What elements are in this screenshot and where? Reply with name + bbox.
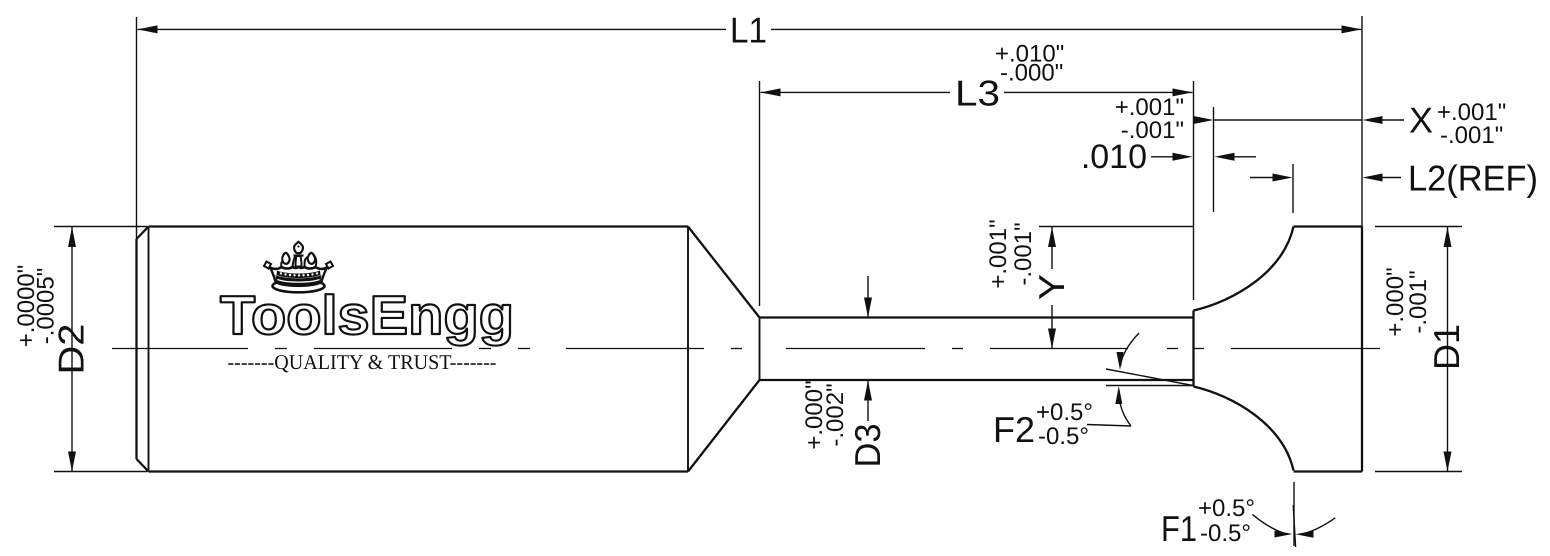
svg-text:-0.5°: -0.5° bbox=[1200, 520, 1251, 547]
svg-text:-.001": -.001" bbox=[1405, 270, 1432, 333]
dimension L2(REF) label bbox=[1408, 158, 1538, 199]
dimension .010 leader with arrow at A bbox=[1151, 153, 1193, 161]
dimension Y lower arrow (tip at centerline) bbox=[1048, 305, 1056, 349]
D1 tolerance upper +.000&quot; (rotated) bbox=[1382, 267, 1409, 336]
L3 left extension line bbox=[759, 81, 761, 306]
head bottom edge bbox=[1294, 470, 1363, 472]
dimension D3 label (rotated) bbox=[847, 424, 888, 468]
shank bottom edge bbox=[149, 470, 689, 472]
X left tolerance upper +.001&quot; bbox=[1115, 94, 1184, 121]
svg-text:+0.5°: +0.5° bbox=[1036, 399, 1093, 426]
dimension D3 upper arrow (tip at neck top) bbox=[864, 276, 872, 318]
head bottom fillet (concave) bbox=[1194, 387, 1294, 471]
Y tolerance upper +.001&quot; (rotated) bbox=[985, 219, 1012, 288]
svg-text:-------QUALITY & TRUST-------: -------QUALITY & TRUST------- bbox=[228, 350, 497, 374]
D1 bottom extension line bbox=[1375, 471, 1462, 473]
svg-text:+0.5°: +0.5° bbox=[1198, 495, 1255, 522]
dimension .010 label bbox=[1081, 138, 1147, 176]
dimension .010 right arrow at B with tail bbox=[1215, 153, 1257, 161]
svg-text:F1: F1 bbox=[1161, 508, 1197, 549]
F1 arc right segment with arrow bbox=[1296, 518, 1336, 538]
dimension L3 label bbox=[955, 73, 1000, 114]
F1 tolerance upper +0.5° bbox=[1198, 495, 1255, 522]
svg-text:-0.5°: -0.5° bbox=[1038, 423, 1089, 450]
L3 tolerance lower -.000&quot; bbox=[1000, 60, 1063, 87]
taper bottom edge bbox=[688, 380, 760, 472]
F1 arc left segment with arrow bbox=[1252, 514, 1292, 537]
neck top edge bbox=[760, 316, 1194, 318]
svg-text:-.001": -.001" bbox=[1440, 122, 1503, 149]
dimension F1 label bbox=[1161, 508, 1197, 549]
F1 tolerance lower -0.5° bbox=[1200, 520, 1251, 547]
L3 right extension line (node A) bbox=[1193, 81, 1195, 300]
dimension D2 label (rotated) bbox=[51, 324, 92, 375]
F2 tolerance upper +0.5° bbox=[1036, 399, 1093, 426]
X tolerance lower -.001&quot; bbox=[1440, 122, 1503, 149]
X left tolerance lower -.001&quot; bbox=[1121, 117, 1184, 144]
dimension D3 lower arrow (tip at neck bottom) bbox=[864, 381, 872, 422]
D2 tolerance lower -.0005&quot; (rotated) bbox=[33, 268, 60, 345]
logo crown bbox=[264, 242, 333, 293]
F2 taper angle slant line bbox=[1106, 369, 1193, 386]
dimension F2 label bbox=[993, 409, 1035, 450]
Y tolerance lower -.001&quot; (rotated) bbox=[1010, 222, 1037, 285]
F1 face angle slant line bbox=[1293, 505, 1295, 547]
centerline (axis of tool, dash-dot) bbox=[112, 348, 1380, 350]
L1 left extension line bbox=[136, 17, 138, 239]
neck bottom edge bbox=[760, 379, 1194, 381]
dimension X right arrow (tip at D) bbox=[1363, 116, 1405, 124]
D2 tolerance upper +.0000&quot; (rotated) bbox=[13, 265, 40, 348]
L2 left extension line (node C) bbox=[1292, 164, 1294, 213]
D2 top extension line bbox=[54, 226, 147, 228]
shank top edge bbox=[149, 225, 689, 227]
L1 right extension line bbox=[1361, 16, 1363, 227]
D2 bottom extension line bbox=[54, 471, 147, 473]
svg-text:-.0005": -.0005" bbox=[33, 268, 60, 345]
D1 top extension line bbox=[1375, 226, 1462, 228]
X dimension extension line (node B) bbox=[1213, 107, 1215, 212]
svg-text:L2(REF): L2(REF) bbox=[1408, 158, 1538, 199]
svg-text:L1: L1 bbox=[730, 10, 767, 51]
dimension X line across span bbox=[1214, 119, 1363, 121]
svg-text:-.002": -.002" bbox=[822, 383, 849, 446]
svg-text:+.001": +.001" bbox=[985, 219, 1012, 288]
F2 tolerance lower -0.5° bbox=[1038, 423, 1089, 450]
svg-text:-.001": -.001" bbox=[1010, 222, 1037, 285]
neck start edge (vertical) bbox=[759, 318, 761, 381]
dimension D1 label (rotated) bbox=[1426, 324, 1467, 370]
shank bottom-left chamfer bbox=[137, 459, 149, 472]
F2 reference horizontal line bbox=[1106, 385, 1193, 387]
F2 leader line bbox=[1087, 425, 1131, 427]
dimension L1 line (left part) with left arrow bbox=[138, 25, 727, 33]
shank right edge (taper start) bbox=[687, 227, 689, 472]
head rear face (vertical at fillet start) bbox=[1192, 311, 1194, 387]
dimension X left arrow (tip at B) bbox=[1194, 116, 1214, 124]
D1 tolerance lower -.001&quot; (rotated) bbox=[1405, 270, 1432, 333]
head top edge bbox=[1294, 225, 1363, 227]
dimension L1 line (right part) with right arrow bbox=[771, 25, 1362, 33]
Y top extension line bbox=[1039, 226, 1194, 228]
svg-text:.010: .010 bbox=[1081, 138, 1147, 176]
svg-text:ToolsEngg: ToolsEngg bbox=[220, 284, 514, 346]
X tolerance upper +.001&quot; bbox=[1437, 99, 1506, 126]
dimension L1 label bbox=[730, 10, 767, 51]
logo wordmark ToolsEngg bbox=[220, 284, 514, 346]
svg-text:F2: F2 bbox=[993, 409, 1035, 450]
L3 tolerance upper +.010&quot; bbox=[995, 41, 1064, 68]
F2 upper arc with arrow bbox=[1117, 333, 1140, 370]
F2 lower arc with arrow bbox=[1115, 386, 1131, 426]
head top fillet (concave) bbox=[1194, 227, 1294, 311]
shank top-left chamfer bbox=[137, 227, 149, 240]
svg-text:D3: D3 bbox=[847, 424, 888, 468]
shank left face bbox=[135, 239, 137, 459]
dimension D2 line with arrows bbox=[68, 227, 76, 472]
taper top edge bbox=[688, 227, 760, 318]
D3 tolerance upper +.000&quot; (rotated) bbox=[801, 380, 828, 449]
F1 vertical reference line bbox=[1293, 482, 1295, 546]
dimension L2 right arrow with tail bbox=[1363, 174, 1402, 182]
svg-text:Y: Y bbox=[1031, 274, 1072, 300]
dimension X label bbox=[1409, 100, 1433, 141]
head right edge (cutting face) bbox=[1361, 227, 1363, 472]
svg-text:D1: D1 bbox=[1426, 324, 1467, 370]
svg-text:-.000": -.000" bbox=[1000, 60, 1063, 87]
dimension Y label (rotated) bbox=[1031, 274, 1072, 300]
dimension L3 line (right part) with right arrow bbox=[1004, 88, 1193, 96]
dimension L2 left arrow with tail bbox=[1250, 174, 1293, 182]
dimension Y upper arrow (tip at head-top level) bbox=[1048, 227, 1056, 269]
svg-text:X: X bbox=[1409, 100, 1433, 141]
svg-text:L3: L3 bbox=[955, 73, 1000, 114]
logo tagline QUALITY &amp; TRUST bbox=[228, 350, 497, 374]
D3 tolerance lower -.002&quot; (rotated) bbox=[822, 383, 849, 446]
shank chamfer edge (vertical) bbox=[148, 227, 150, 472]
dimension L3 line (left part) with left arrow bbox=[761, 88, 951, 96]
dimension D1 line with arrows bbox=[1444, 227, 1452, 472]
